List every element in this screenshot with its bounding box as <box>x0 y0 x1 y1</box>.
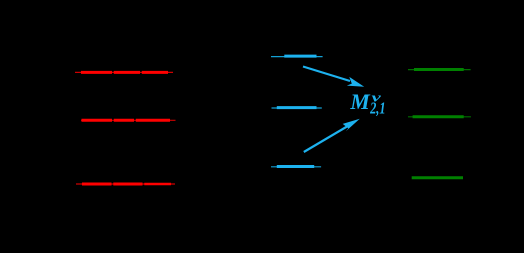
svg-text:M: M <box>349 89 371 114</box>
svg-text:2,1: 2,1 <box>369 100 385 118</box>
